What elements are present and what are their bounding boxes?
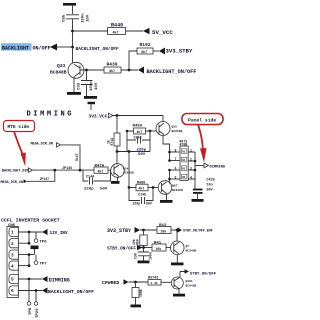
svg-text:C55: C55 bbox=[63, 14, 67, 22]
svg-text:4k7: 4k7 bbox=[137, 130, 143, 134]
svg-text:R3: R3 bbox=[182, 167, 186, 170]
svg-text:100n: 100n bbox=[82, 13, 86, 23]
transistor Q391 bbox=[171, 277, 183, 289]
wire: R439 to output arrow bbox=[121, 69, 138, 71]
port STBY_ON/OFF_BUF bbox=[178, 227, 213, 232]
ground (R1004) bbox=[131, 305, 142, 308]
svg-text:2: 2 bbox=[190, 157, 192, 161]
svg-text:R2: R2 bbox=[182, 159, 186, 162]
wire: up to R192 bbox=[129, 51, 137, 70]
resistor R440 bbox=[108, 28, 126, 36]
transistor Q67 bbox=[158, 181, 172, 195]
wire: junction to input arrow bbox=[57, 46, 73, 48]
node junction pin7 bus bbox=[168, 159, 171, 162]
node junction pin2 bbox=[28, 242, 31, 245]
power bar 3V3 bbox=[88, 102, 96, 110]
svg-text:BC846B: BC846B bbox=[123, 172, 134, 175]
wire: to R480b bbox=[129, 187, 136, 189]
node junction (MEGA upper joins) bbox=[79, 169, 82, 172]
wire: pins 1-2 join bbox=[28, 232, 30, 243]
node junction R71A tap bbox=[116, 114, 119, 117]
resistor R50 (pull-up) bbox=[140, 230, 147, 248]
svg-text:C144: C144 bbox=[86, 176, 94, 180]
ground (C425) bbox=[192, 199, 204, 202]
wire: R71A to node row bbox=[116, 146, 118, 152]
power symbol 3V3_STBY bbox=[159, 48, 193, 55]
svg-text:TP8: TP8 bbox=[29, 307, 33, 315]
pin 2 bbox=[9, 239, 18, 248]
svg-text:3V3_STBY: 3V3_STBY bbox=[166, 48, 193, 55]
svg-text:R480: R480 bbox=[137, 182, 145, 186]
svg-text:2: 2 bbox=[11, 242, 14, 247]
resistor R43 bbox=[157, 227, 171, 234]
wire: node X down to lower RC bbox=[128, 152, 130, 188]
resistor R439 bbox=[104, 67, 121, 74]
svg-text:JP147: JP147 bbox=[40, 177, 50, 181]
node junction pin3 bbox=[28, 253, 31, 256]
port CPWRED (in) bbox=[102, 279, 129, 286]
svg-text:TP20: TP20 bbox=[36, 308, 40, 318]
svg-text:220p: 220p bbox=[137, 149, 147, 153]
capacitor C33 bbox=[81, 70, 93, 96]
node junction R100k tap bbox=[134, 281, 137, 284]
svg-text:TP7: TP7 bbox=[40, 262, 48, 266]
wire: pin3 row bbox=[18, 254, 34, 256]
svg-text:6: 6 bbox=[11, 289, 14, 294]
svg-text:5: 5 bbox=[175, 175, 177, 179]
wire: 3V3 rail bbox=[113, 115, 163, 117]
svg-text:1: 1 bbox=[11, 231, 14, 236]
resistor network RN473 bbox=[180, 146, 188, 181]
resistor R480 (upper) bbox=[134, 128, 146, 134]
svg-text:3: 3 bbox=[190, 166, 192, 170]
wire: pin6 stub bbox=[170, 169, 180, 171]
svg-text:Q7: Q7 bbox=[186, 245, 190, 248]
svg-text:4k7: 4k7 bbox=[141, 50, 147, 55]
node junction bus 2 bbox=[194, 160, 197, 163]
svg-text:BACKLIGHT_DIM: BACKLIGHT_DIM bbox=[2, 170, 28, 174]
wire: to DIMMING arrow bbox=[195, 165, 204, 167]
svg-text:BC848B: BC848B bbox=[186, 285, 197, 288]
svg-text:50V: 50V bbox=[146, 202, 152, 206]
port 12V_INV bbox=[42, 229, 68, 236]
wire: RC top branch bbox=[127, 130, 150, 132]
svg-text:STBY_ON/OFF: STBY_ON/OFF bbox=[107, 247, 136, 252]
ground (C33) bbox=[84, 96, 97, 99]
port arrow BACKLIGHT ON/OFF (input, highlighted) bbox=[1, 43, 57, 51]
svg-text:R439: R439 bbox=[107, 61, 118, 67]
wire: R47A to Q34 base bbox=[108, 169, 111, 171]
svg-text:BACKLIGHT: BACKLIGHT bbox=[2, 46, 29, 52]
svg-text:220p: 220p bbox=[133, 202, 141, 206]
node junction pin4 bbox=[28, 264, 31, 267]
callout Panel side bbox=[182, 114, 223, 125]
svg-text:R1: R1 bbox=[182, 150, 186, 153]
testpoint TP7 bbox=[34, 255, 47, 267]
svg-text:BACKLIGHT_ON/OFF: BACKLIGHT_ON/OFF bbox=[48, 289, 94, 295]
svg-text:C38: C38 bbox=[134, 253, 138, 259]
svg-text:R71A: R71A bbox=[110, 138, 114, 146]
wire: pin2 row bbox=[18, 242, 29, 244]
wire: pin6 row bbox=[18, 290, 42, 292]
svg-text:R41: R41 bbox=[154, 241, 162, 245]
svg-text:5V_VCC: 5V_VCC bbox=[152, 29, 173, 36]
wire: node X row bbox=[117, 151, 150, 153]
node junction R192 branch bbox=[128, 69, 131, 72]
svg-text:50V: 50V bbox=[207, 189, 214, 193]
wire: R3743 to Q391 base bbox=[161, 281, 171, 283]
transistor Q34 bbox=[111, 164, 125, 178]
wire: STBY row bbox=[143, 247, 153, 249]
wire: pin5 stub bbox=[170, 178, 180, 180]
svg-text:Q33: Q33 bbox=[57, 63, 66, 69]
node junction cap tap bbox=[142, 246, 145, 249]
svg-text:4k7: 4k7 bbox=[98, 169, 104, 173]
wire: Q7 emitter bbox=[176, 255, 178, 263]
svg-text:BACKLIGHT_ON/OFF: BACKLIGHT_ON/OFF bbox=[76, 46, 120, 52]
node junction at R440 tap bbox=[71, 30, 74, 33]
resistor R71A bbox=[114, 133, 120, 146]
ground (Q7) bbox=[171, 263, 184, 266]
svg-text:12V_INV: 12V_INV bbox=[50, 231, 68, 236]
svg-text:DIMMING: DIMMING bbox=[210, 165, 226, 169]
port DIMMING (output) bbox=[204, 163, 226, 169]
wire: right bus bbox=[194, 152, 196, 189]
svg-text:4k7: 4k7 bbox=[139, 187, 145, 191]
node junction Q7 collector bbox=[176, 229, 179, 232]
svg-text:3V3_VCC: 3V3_VCC bbox=[89, 113, 108, 119]
node junction pin8/7 bus bbox=[168, 151, 171, 154]
svg-text:CPWRED: CPWRED bbox=[102, 280, 119, 286]
testpoint TP20 bbox=[34, 291, 40, 319]
callout MTK side bbox=[4, 121, 35, 132]
svg-text:C145: C145 bbox=[138, 193, 146, 197]
capacitor C425 bbox=[193, 189, 203, 199]
svg-text:3.3k: 3.3k bbox=[151, 281, 158, 285]
testpoint TP8 bbox=[27, 279, 33, 315]
wire: CPWRED row bbox=[129, 281, 149, 283]
svg-text:BACKLIGHT_ON/OFF: BACKLIGHT_ON/OFF bbox=[147, 69, 197, 75]
svg-text:50V: 50V bbox=[100, 187, 108, 191]
svg-text:10V: 10V bbox=[87, 14, 91, 22]
svg-text:100n: 100n bbox=[149, 252, 153, 260]
svg-text:Panel side: Panel side bbox=[188, 118, 216, 124]
svg-text:CCFL INVERTER SOCKET: CCFL INVERTER SOCKET bbox=[1, 217, 60, 223]
svg-text:R47A: R47A bbox=[95, 164, 105, 168]
wire: pin1 row bbox=[18, 231, 42, 233]
svg-text:10k: 10k bbox=[161, 229, 167, 233]
wire: 3V3 rail down to Q35 collector bbox=[162, 116, 164, 122]
wire: right stubs pins 1-4 bbox=[189, 152, 196, 179]
port STBY_ON/OFF (out) bbox=[185, 269, 217, 276]
wire: Q391 collector to out bbox=[180, 272, 185, 278]
resistor R192 bbox=[137, 48, 153, 55]
port 3V3_VCC bbox=[89, 113, 114, 119]
wire: pin7 stub bbox=[170, 160, 180, 162]
svg-text:1: 1 bbox=[190, 148, 192, 152]
wire: Q67 emitter bbox=[166, 194, 168, 201]
wire: R41 to Q7 base bbox=[166, 247, 171, 249]
svg-text:4k7: 4k7 bbox=[109, 69, 115, 74]
wire: Q33 emitter to ground bbox=[73, 77, 75, 92]
svg-text:5: 5 bbox=[11, 278, 14, 283]
svg-text:STBY_ON/OFF_BUF: STBY_ON/OFF_BUF bbox=[183, 229, 213, 233]
svg-text:100n: 100n bbox=[90, 81, 94, 91]
svg-text:MTK side: MTK side bbox=[8, 124, 30, 130]
node junction RC left bbox=[126, 130, 129, 133]
wire: R43 to out bbox=[171, 229, 178, 231]
pin 1 bbox=[9, 227, 18, 236]
node junction lower RC right bbox=[152, 186, 155, 189]
pin 3 bbox=[9, 250, 18, 259]
port BACKLIGHT_ON/OFF (pin6) bbox=[42, 288, 94, 295]
wire: R440 to 5V_VCC bbox=[126, 30, 144, 32]
power symbol 5V_VCC bbox=[143, 28, 173, 36]
port arrow BACKLIGHT_ON/OFF (buffered out) bbox=[138, 67, 196, 76]
node junction Q35 base bbox=[149, 130, 152, 133]
svg-text:4: 4 bbox=[190, 175, 192, 179]
wire: Q7 collector bbox=[176, 230, 178, 241]
wire: R480b to Q67 base bbox=[148, 187, 159, 189]
node junction pin6 bus bbox=[168, 169, 171, 172]
wire: pin5 row bbox=[18, 278, 42, 280]
svg-text:100k: 100k bbox=[139, 289, 143, 297]
wire: Q67 collector to pin bus bbox=[169, 170, 171, 184]
red leader arrow (MTK) bbox=[14, 132, 26, 167]
wire: Q34 collector bbox=[116, 152, 118, 165]
ground (C38) bbox=[138, 261, 150, 264]
transistor Q35 bbox=[156, 122, 170, 136]
wire: down to R71A bbox=[116, 116, 118, 134]
svg-text:Q34: Q34 bbox=[123, 168, 129, 171]
svg-text:R192: R192 bbox=[140, 42, 151, 48]
wire: pins 3-4 join bbox=[28, 255, 30, 266]
resistor R1004 (pull-down) bbox=[132, 282, 139, 305]
node junction (MEGA lower joins) bbox=[53, 169, 56, 172]
svg-text:8: 8 bbox=[175, 148, 177, 152]
wire: pin8 stub bbox=[170, 151, 180, 153]
svg-text:ON/OFF: ON/OFF bbox=[33, 46, 51, 52]
svg-text:6: 6 bbox=[175, 166, 177, 170]
capacitor C55 bbox=[66, 15, 79, 24]
node junction pin5 bus bbox=[168, 178, 171, 181]
connector CN6 outline bbox=[7, 226, 18, 297]
transistor Q7 bbox=[171, 241, 185, 255]
wire: Q35 base stub bbox=[150, 130, 157, 132]
wire: Q33 base row bbox=[80, 69, 104, 71]
wire: BACKLIGHT_DIM row bbox=[33, 169, 95, 171]
svg-text:C33: C33 bbox=[78, 82, 82, 90]
resistor R41 bbox=[152, 244, 166, 251]
svg-text:R50: R50 bbox=[136, 239, 140, 245]
svg-text:R4: R4 bbox=[182, 176, 186, 179]
wire: MEGA_DCR_ON upper to dim row bbox=[61, 145, 81, 170]
port MEGA_DCR_ON (lower) bbox=[1, 179, 28, 184]
svg-text:220p: 220p bbox=[84, 187, 94, 191]
svg-text:MEGA_DCR_ON: MEGA_DCR_ON bbox=[31, 142, 53, 146]
wire: MEGA_DCR_ON lower to dim row bbox=[27, 170, 55, 181]
svg-text:BC846B: BC846B bbox=[186, 249, 197, 252]
capacitor C145 (parallel loop) bbox=[129, 188, 153, 205]
resistor R480 (lower) bbox=[136, 184, 148, 191]
svg-text:R167: R167 bbox=[75, 153, 79, 161]
capacitor C38 bbox=[138, 248, 149, 261]
svg-text:7: 7 bbox=[175, 157, 177, 161]
transistor Q33 bbox=[68, 62, 84, 78]
port BACKLIGHT_DIM bbox=[2, 168, 33, 174]
port 3V3_STBY (in) bbox=[107, 227, 140, 234]
node junction pin1 bbox=[28, 231, 31, 234]
svg-text:R480: R480 bbox=[133, 125, 143, 129]
ground (Q391) bbox=[173, 294, 185, 297]
svg-text:BC856B: BC856B bbox=[172, 130, 183, 133]
svg-text:JP146: JP146 bbox=[62, 167, 72, 171]
resistor R3743 bbox=[148, 280, 161, 285]
wire: vertical main net x=71 bbox=[72, 24, 74, 65]
power bar top (5V rail) bbox=[63, 3, 76, 6]
svg-text:Q35: Q35 bbox=[172, 126, 178, 129]
node junction pin5 bbox=[28, 278, 31, 281]
wire: node row up to Q35 base bbox=[149, 131, 151, 152]
ground (Q34) bbox=[111, 181, 120, 184]
svg-text:TP6: TP6 bbox=[40, 240, 48, 244]
svg-text:R440: R440 bbox=[111, 22, 123, 28]
ground (Q67) bbox=[160, 200, 173, 203]
node junction (branch to Q67 chain) bbox=[128, 150, 131, 153]
svg-text:DIMMING: DIMMING bbox=[49, 277, 70, 283]
svg-text:Q391: Q391 bbox=[186, 280, 193, 283]
port STBY_ON/OFF (in) bbox=[107, 245, 143, 252]
svg-text:470R: 470R bbox=[180, 143, 188, 147]
node junction pin6 bbox=[35, 289, 38, 292]
svg-text:4k7: 4k7 bbox=[113, 30, 119, 35]
capacitor C144 (parallel loop) bbox=[83, 170, 111, 184]
svg-text:BC848B: BC848B bbox=[50, 70, 67, 76]
pin 4 bbox=[9, 261, 18, 270]
red leader arrow (Panel) bbox=[198, 125, 207, 163]
wire: Q391 emitter bbox=[178, 289, 180, 294]
node junction bus 3 bbox=[194, 169, 197, 172]
svg-text:R43: R43 bbox=[159, 224, 167, 228]
port MEGA_DCR_ON (upper) bbox=[31, 142, 61, 147]
svg-text:4: 4 bbox=[11, 264, 14, 269]
pin 6 bbox=[9, 286, 18, 295]
wire: to R440 bbox=[73, 30, 108, 32]
svg-text:10n: 10n bbox=[207, 184, 213, 188]
wire: Q35 emitter to pin bus bbox=[163, 136, 170, 161]
svg-text:C425: C425 bbox=[207, 179, 215, 183]
port DIMMING (pin5) bbox=[42, 276, 70, 283]
wire: R192 to 3V3_STBY bbox=[153, 50, 159, 52]
svg-text:DIMMING: DIMMING bbox=[27, 111, 75, 119]
wire: pin4 row bbox=[18, 265, 29, 267]
svg-text:3V3_STBY: 3V3_STBY bbox=[107, 228, 131, 234]
pin 5 bbox=[9, 274, 18, 283]
ground (Q33 emitter) bbox=[67, 92, 81, 95]
svg-text:10k: 10k bbox=[132, 239, 136, 245]
testpoint TP6 bbox=[34, 232, 47, 244]
svg-text:C262: C262 bbox=[134, 137, 142, 141]
node junction R50 tap bbox=[142, 229, 145, 232]
wire: 3V3_STBY row bbox=[140, 229, 157, 231]
node junction BACKLIGHT row bbox=[71, 46, 74, 49]
wire: Q34 emitter bbox=[117, 177, 119, 181]
svg-text:MEGA_DCR_ON: MEGA_DCR_ON bbox=[1, 181, 23, 185]
node junction C33 tap bbox=[85, 69, 88, 72]
svg-text:Q67: Q67 bbox=[172, 184, 178, 187]
wire: rail bar to C55 bbox=[72, 6, 74, 14]
node junction (collector/R71A) bbox=[116, 150, 119, 153]
svg-text:BC846B: BC846B bbox=[172, 189, 183, 192]
ground (pin3, bar above) bbox=[31, 246, 39, 255]
svg-text:1k: 1k bbox=[107, 140, 111, 144]
node junction lower RC left bbox=[128, 186, 131, 189]
svg-text:10k: 10k bbox=[156, 247, 162, 251]
svg-text:STBY_ON/OFF: STBY_ON/OFF bbox=[190, 271, 217, 276]
svg-text:10V: 10V bbox=[95, 82, 99, 90]
svg-text:3: 3 bbox=[11, 253, 14, 258]
resistor R47A bbox=[94, 167, 108, 173]
svg-text:50V: 50V bbox=[138, 153, 146, 157]
svg-text:R3743: R3743 bbox=[148, 276, 158, 280]
capacitor C262 (parallel loop) bbox=[127, 131, 150, 152]
